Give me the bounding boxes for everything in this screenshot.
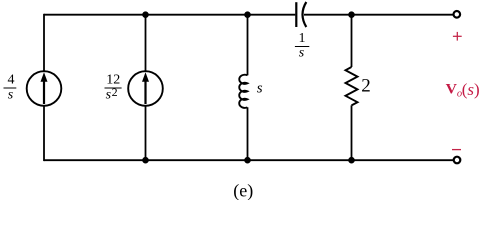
terminal top [454,11,461,18]
svg-text:s: s [257,81,263,97]
svg-text:Vo(s): Vo(s) [446,80,480,100]
wire resistor branch upper [351,15,353,67]
wire inductor branch lower [247,107,249,160]
current source I1 circle [27,71,62,106]
current source I1 arrow [43,81,45,105]
inductor L (s) [239,75,247,108]
label 12/s^2 [105,73,122,103]
node top resistor [348,11,355,18]
wire left rail lower [43,107,45,162]
capacitor C left plate [295,2,297,27]
node bottom resistor [348,157,355,164]
svg-text:1: 1 [299,31,306,46]
current source I2 arrow [144,81,146,105]
wire source2 branch lower [145,107,147,161]
svg-text:s: s [8,88,14,103]
minus sign [452,149,461,151]
node top inductor [244,11,251,18]
node top source2 [142,11,149,18]
label 4/s [4,73,17,103]
current source I2 circle [128,71,163,106]
node bottom inductor [244,157,251,164]
resistor R (2) zigzag [346,67,358,105]
svg-text:(e): (e) [233,180,253,200]
wire bottom rail [44,159,454,161]
plus sign [453,32,462,41]
node bottom source2 [142,157,149,164]
capacitor C right curved plate [303,2,307,27]
wire top rail left of capacitor [44,14,295,16]
svg-text:2: 2 [112,85,118,99]
wire left rail upper [43,14,45,71]
svg-text:4: 4 [8,73,15,88]
svg-text:s: s [299,46,305,61]
svg-text:2: 2 [361,76,371,97]
terminal bottom [454,157,461,164]
wire source2 branch upper [145,15,147,71]
wire top rail right of capacitor [304,14,454,16]
wire resistor branch lower [351,105,353,160]
label 1/s (capacitor) [295,31,309,61]
wire inductor branch upper [247,15,249,76]
